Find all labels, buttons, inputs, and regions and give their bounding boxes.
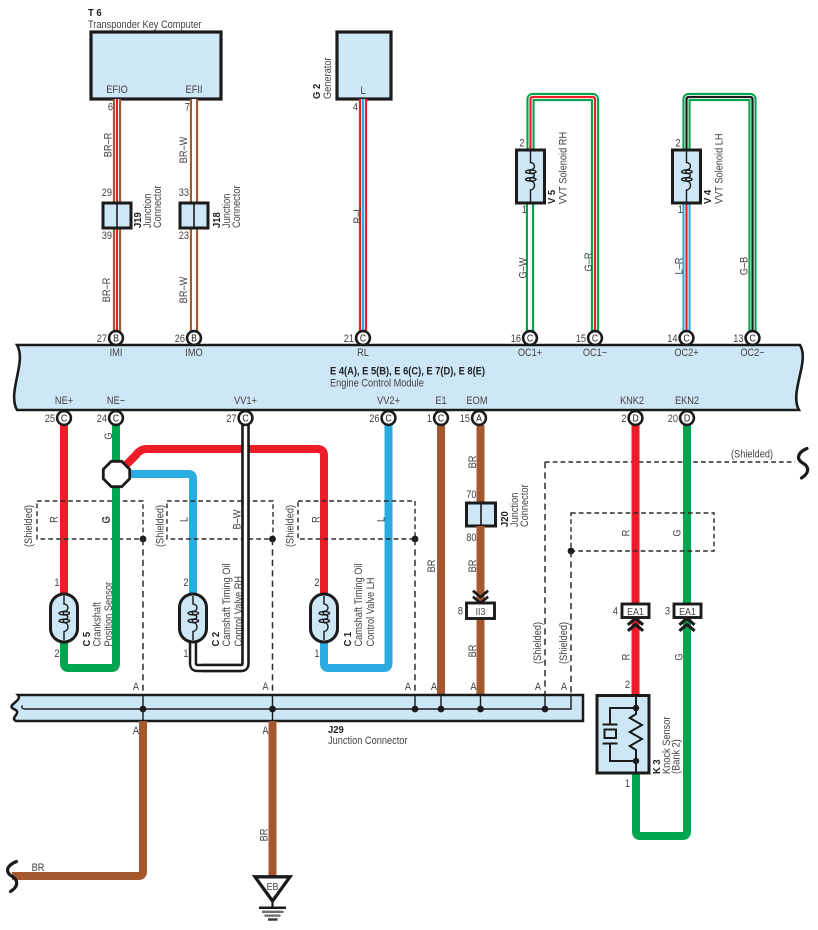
svg-text:27: 27 xyxy=(97,333,108,345)
svg-text:D: D xyxy=(684,412,691,424)
svg-text:2: 2 xyxy=(625,679,630,691)
wire R-L from G2 pin 4 to ECM RL xyxy=(352,99,364,334)
svg-text:26: 26 xyxy=(175,333,186,345)
valve C2 Camshaft Timing Oil Control Valve RH xyxy=(180,563,246,660)
svg-text:39: 39 xyxy=(102,230,113,242)
svg-text:Generator: Generator xyxy=(322,57,334,99)
svg-text:EA1: EA1 xyxy=(627,606,644,618)
svg-text:BR: BR xyxy=(426,560,438,573)
svg-text:BR: BR xyxy=(259,829,271,842)
svg-text:OC1+: OC1+ xyxy=(518,347,542,359)
continuation squiggle right xyxy=(799,449,808,479)
svg-text:Control Valve LH: Control Valve LH xyxy=(365,577,377,646)
svg-text:(Bank 2): (Bank 2) xyxy=(671,739,683,774)
J29 internal pins and junction dots xyxy=(140,695,549,721)
svg-text:OC2+: OC2+ xyxy=(674,347,698,359)
svg-text:EFII: EFII xyxy=(186,84,203,96)
svg-text:13: 13 xyxy=(733,333,744,345)
wire L junction from node to C2 pin 2 xyxy=(127,474,193,596)
node junction octagon xyxy=(103,461,129,486)
ECM top connector pins xyxy=(97,331,123,345)
svg-text:L: L xyxy=(376,517,388,522)
svg-text:A: A xyxy=(535,681,541,693)
svg-text:Connector: Connector xyxy=(152,185,164,228)
shield box around C5 wires xyxy=(23,501,143,547)
svg-text:1: 1 xyxy=(54,577,59,589)
svg-text:C: C xyxy=(61,412,68,424)
svg-text:Connector: Connector xyxy=(519,484,531,527)
wire G-W from ECM OC1+ to V5 pin 1 xyxy=(518,203,530,334)
Engine Control Module band xyxy=(14,345,803,410)
svg-text:NE+: NE+ xyxy=(55,395,73,407)
wire BR from ECM EOM to J20 xyxy=(467,425,480,503)
svg-text:T 6: T 6 xyxy=(88,8,102,20)
svg-text:KNK2: KNK2 xyxy=(620,395,644,407)
svg-text:E1: E1 xyxy=(435,395,447,407)
svg-text:NE−: NE− xyxy=(107,395,125,407)
svg-text:L–R: L–R xyxy=(674,258,686,275)
svg-text:OC2−: OC2− xyxy=(740,347,764,359)
svg-text:2: 2 xyxy=(54,648,59,660)
svg-text:A: A xyxy=(133,725,139,737)
ECM top pin labels xyxy=(110,347,765,359)
svg-text:1: 1 xyxy=(522,204,527,216)
svg-text:G–B: G–B xyxy=(739,257,751,276)
wire R from ECM KNK2 to K3 pin 2 xyxy=(621,425,636,696)
svg-text:R: R xyxy=(621,654,633,661)
svg-text:1: 1 xyxy=(427,413,432,425)
svg-text:29: 29 xyxy=(102,187,113,199)
connector arrows into EA1 pin 3 xyxy=(679,619,694,625)
ECM bottom connector pins xyxy=(45,411,71,425)
svg-text:L: L xyxy=(360,85,365,97)
svg-text:BR–R: BR–R xyxy=(101,278,113,303)
shield drain C1 to J29 xyxy=(412,536,419,695)
svg-text:C: C xyxy=(438,412,445,424)
svg-text:R–L: R–L xyxy=(352,206,364,223)
wire B-W overlay on labels xyxy=(202,425,246,668)
svg-text:70: 70 xyxy=(466,489,477,501)
svg-text:BR–R: BR–R xyxy=(103,133,115,158)
wire R junction from node to C1 pin 2 xyxy=(121,449,324,596)
svg-text:R: R xyxy=(621,530,633,537)
svg-text:14: 14 xyxy=(667,333,678,345)
svg-text:Junction Connector: Junction Connector xyxy=(328,735,408,747)
connector EA1 pin 4 xyxy=(613,604,649,618)
valve C1 Camshaft Timing Oil Control Valve LH xyxy=(311,563,378,660)
svg-text:VVT Solenoid RH: VVT Solenoid RH xyxy=(558,132,570,204)
wire BR from J29 to ground EB xyxy=(259,721,273,877)
junction connector J20 xyxy=(466,484,531,544)
svg-text:4: 4 xyxy=(353,102,358,114)
sensor K3 Knock Sensor Bank 2 xyxy=(597,696,683,775)
svg-text:RL: RL xyxy=(357,347,369,359)
svg-text:A: A xyxy=(561,681,567,693)
svg-text:7: 7 xyxy=(185,102,190,114)
svg-text:E 4(A), E 5(B), E 6(C), E 7(D): E 4(A), E 5(B), E 6(C), E 7(D), E 8(E) xyxy=(330,366,485,378)
svg-text:1: 1 xyxy=(183,648,188,660)
svg-text:B: B xyxy=(191,332,197,344)
svg-text:VV1+: VV1+ xyxy=(234,395,257,407)
wire B-W from ECM VV1+ to C2 pin 1 xyxy=(193,425,246,668)
J29 pin A labels xyxy=(133,681,567,737)
shield drain C2 to J29 xyxy=(269,536,276,695)
connector arrows into II3 xyxy=(473,597,488,603)
continuation squiggle left xyxy=(8,862,17,892)
junction connector J18 xyxy=(179,185,244,242)
wire BR-W from T6 EFII pin 7 to ECM IMO xyxy=(178,99,194,334)
svg-text:Camshaft Timing Oil: Camshaft Timing Oil xyxy=(221,563,233,646)
svg-text:26: 26 xyxy=(369,413,380,425)
svg-text:BR–W: BR–W xyxy=(178,276,190,303)
svg-text:C: C xyxy=(360,332,367,344)
shield box around knock sensor wires xyxy=(558,513,714,695)
wire BR from J20 to II3 and J29 xyxy=(467,526,480,695)
svg-text:G–W: G–W xyxy=(518,257,530,278)
wire G overlay on labels xyxy=(112,495,120,660)
svg-text:2: 2 xyxy=(519,138,524,150)
svg-text:C: C xyxy=(527,332,534,344)
svg-text:C: C xyxy=(592,332,599,344)
shield box around C1 wires xyxy=(285,501,415,547)
wire BR-R from T6 EFIO pin 6 to ECM IMI xyxy=(101,99,117,334)
svg-text:16: 16 xyxy=(511,333,522,345)
connector II3 xyxy=(458,603,495,619)
sensor C5 Crankshaft Position Sensor xyxy=(51,577,116,660)
svg-text:IMI: IMI xyxy=(110,347,123,359)
svg-text:R: R xyxy=(311,516,323,523)
shield dashed line to right edge xyxy=(545,449,795,462)
svg-text:OC1−: OC1− xyxy=(583,347,607,359)
svg-text:33: 33 xyxy=(179,187,190,199)
svg-text:(Shielded): (Shielded) xyxy=(558,622,570,664)
svg-text:EOM: EOM xyxy=(466,395,487,407)
wire R from ECM NE+ to C5 pin 1 xyxy=(60,425,68,596)
component G2 Generator xyxy=(312,32,391,99)
svg-text:1: 1 xyxy=(678,204,683,216)
svg-text:21: 21 xyxy=(344,333,355,345)
svg-text:EKN2: EKN2 xyxy=(675,395,699,407)
svg-text:C: C xyxy=(113,412,120,424)
svg-text:G–R: G–R xyxy=(583,253,595,272)
ECM bottom pin labels xyxy=(55,395,699,407)
svg-text:EA1: EA1 xyxy=(679,606,696,618)
svg-text:80: 80 xyxy=(466,532,477,544)
svg-text:1: 1 xyxy=(314,648,319,660)
connector EA1 pin 3 xyxy=(665,604,701,618)
svg-text:C: C xyxy=(242,412,249,424)
wire G-R loop from V5 pin 2 to ECM OC1- xyxy=(531,97,596,334)
svg-text:23: 23 xyxy=(179,230,190,242)
svg-text:R: R xyxy=(49,516,61,523)
shield drain C5 to J29 xyxy=(140,536,147,695)
junction connector J19 xyxy=(102,185,165,242)
wire G from ECM EKN2 to K3 pin 1 xyxy=(625,425,687,836)
svg-text:BR–W: BR–W xyxy=(178,136,190,163)
svg-text:V 5: V 5 xyxy=(547,189,559,204)
svg-text:C: C xyxy=(683,332,690,344)
svg-text:C: C xyxy=(749,332,756,344)
connector arrows into EA1 pin 4 xyxy=(628,619,643,625)
svg-text:3: 3 xyxy=(665,606,670,618)
svg-text:6: 6 xyxy=(108,102,113,114)
wire L from ECM VV2+ to C1 pin 1 xyxy=(324,425,389,668)
svg-text:IMO: IMO xyxy=(185,347,203,359)
svg-text:VVT Solenoid LH: VVT Solenoid LH xyxy=(714,133,726,204)
svg-text:2: 2 xyxy=(183,577,188,589)
svg-text:BR: BR xyxy=(32,862,45,874)
svg-text:V 4: V 4 xyxy=(703,189,715,204)
svg-text:4: 4 xyxy=(613,606,618,618)
svg-text:(Shielded): (Shielded) xyxy=(532,622,544,664)
svg-text:BR: BR xyxy=(467,645,479,658)
svg-text:20: 20 xyxy=(668,413,679,425)
svg-text:(Shielded): (Shielded) xyxy=(285,505,297,547)
junction connector J29 xyxy=(12,695,583,747)
wire BR from J29 to left continuation xyxy=(12,721,143,876)
svg-text:II3: II3 xyxy=(476,606,486,618)
solenoid V5 VVT Solenoid RH xyxy=(517,132,570,216)
svg-text:Transponder Key Computer: Transponder Key Computer xyxy=(88,19,202,31)
svg-text:BR: BR xyxy=(467,560,479,573)
svg-text:VV2+: VV2+ xyxy=(377,395,400,407)
svg-text:Connector: Connector xyxy=(231,185,243,228)
svg-text:A: A xyxy=(262,681,268,693)
svg-text:BR: BR xyxy=(467,456,479,469)
svg-text:15: 15 xyxy=(576,333,587,345)
svg-text:A: A xyxy=(133,681,139,693)
wire L-R from ECM OC2+ to V4 pin 1 xyxy=(674,203,687,334)
shield box around C2 wires xyxy=(155,501,273,547)
svg-text:A: A xyxy=(262,725,268,737)
svg-text:D: D xyxy=(632,412,639,424)
svg-text:A: A xyxy=(405,681,411,693)
shield drain left to J29 xyxy=(532,462,545,695)
wire G-B loop from V4 pin 2 to ECM OC2- xyxy=(687,97,753,334)
ground EB xyxy=(255,877,290,920)
svg-text:A: A xyxy=(470,681,476,693)
component T6 Transponder Key Computer xyxy=(88,8,221,99)
svg-text:2: 2 xyxy=(621,413,626,425)
svg-text:27: 27 xyxy=(226,413,237,425)
svg-text:(Shielded): (Shielded) xyxy=(731,449,773,461)
solenoid V4 VVT Solenoid LH xyxy=(673,133,726,216)
svg-text:2: 2 xyxy=(675,138,680,150)
svg-text:24: 24 xyxy=(97,413,108,425)
svg-text:(Shielded): (Shielded) xyxy=(155,505,167,547)
svg-text:EB: EB xyxy=(267,881,279,893)
svg-text:B: B xyxy=(113,332,119,344)
svg-text:A: A xyxy=(476,412,483,424)
svg-text:G: G xyxy=(101,516,113,523)
svg-text:EFIO: EFIO xyxy=(106,84,128,96)
wire G from ECM NE- through node to C5 pin 2 xyxy=(64,425,116,668)
svg-text:2: 2 xyxy=(314,577,319,589)
svg-text:C: C xyxy=(385,412,392,424)
svg-text:8: 8 xyxy=(458,606,463,618)
svg-text:(Shielded): (Shielded) xyxy=(23,505,35,547)
svg-text:Camshaft Timing Oil: Camshaft Timing Oil xyxy=(353,563,365,646)
wire BR from ECM E1 to J29 xyxy=(426,425,441,695)
svg-text:1: 1 xyxy=(625,778,630,790)
svg-text:Engine Control Module: Engine Control Module xyxy=(330,378,424,390)
svg-text:25: 25 xyxy=(45,413,56,425)
svg-text:G: G xyxy=(672,529,684,536)
svg-text:G: G xyxy=(103,432,115,439)
svg-text:Crankshaft: Crankshaft xyxy=(92,602,104,647)
svg-text:G: G xyxy=(674,653,686,660)
svg-text:A: A xyxy=(431,681,437,693)
svg-text:L: L xyxy=(179,517,191,522)
svg-text:15: 15 xyxy=(460,413,471,425)
